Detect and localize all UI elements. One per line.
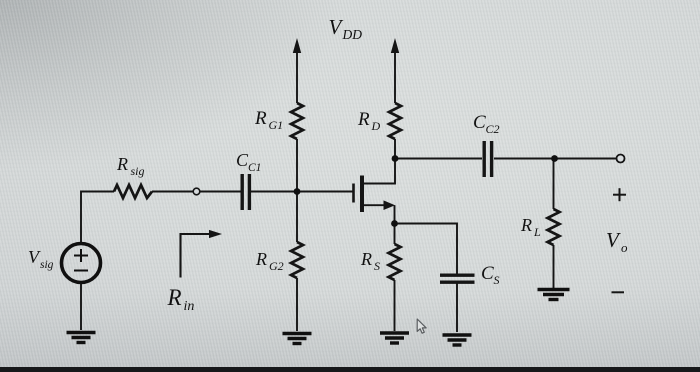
svg-text:D: D xyxy=(371,119,381,133)
svg-text:V: V xyxy=(606,228,621,252)
svg-text:V: V xyxy=(329,15,344,39)
svg-text:C: C xyxy=(473,112,486,133)
svg-text:C1: C1 xyxy=(248,162,261,174)
svg-text:DD: DD xyxy=(342,27,363,42)
svg-text:R: R xyxy=(255,249,267,269)
svg-text:R: R xyxy=(116,154,128,174)
svg-text:R: R xyxy=(167,285,182,310)
svg-text:G1: G1 xyxy=(269,118,284,132)
svg-text:in: in xyxy=(184,299,195,314)
svg-text:L: L xyxy=(533,225,541,239)
svg-text:R: R xyxy=(254,108,267,129)
svg-text:sig: sig xyxy=(131,164,145,178)
svg-text:R: R xyxy=(360,249,372,269)
svg-text:S: S xyxy=(494,273,500,287)
svg-text:S: S xyxy=(374,259,380,273)
svg-text:sig: sig xyxy=(40,259,54,271)
svg-text:G2: G2 xyxy=(269,259,284,273)
svg-text:o: o xyxy=(621,240,628,255)
svg-text:C: C xyxy=(481,263,494,284)
svg-text:R: R xyxy=(520,215,532,235)
svg-text:C2: C2 xyxy=(486,122,500,136)
svg-text:R: R xyxy=(357,109,370,130)
